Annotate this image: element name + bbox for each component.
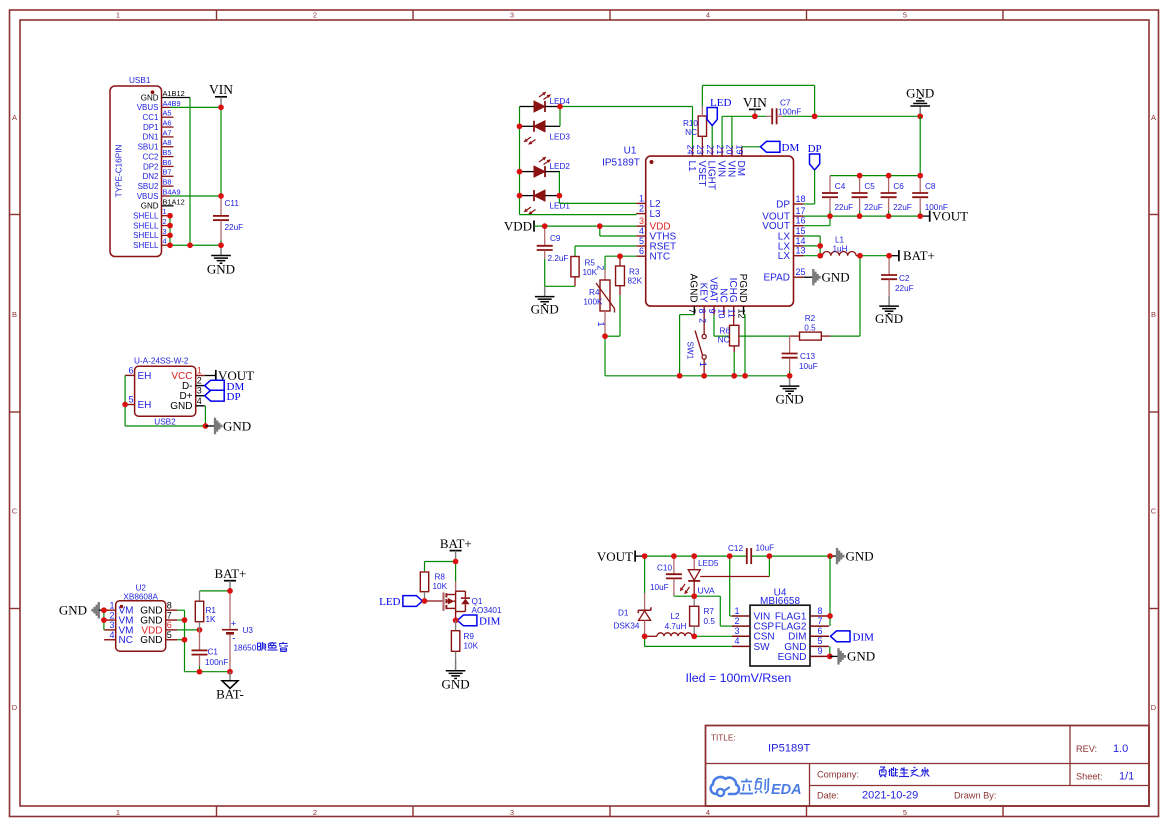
svg-text:11: 11 (727, 309, 737, 318)
wire rail after C12 (751, 555, 830, 557)
svg-text:R1: R1 (206, 606, 217, 615)
svg-text:A: A (1151, 113, 1156, 122)
capacitor C10 (666, 556, 682, 596)
title block frame (706, 726, 1150, 807)
resistor R9 (451, 620, 459, 660)
svg-text:VIN: VIN (715, 161, 726, 178)
svg-text:GND: GND (906, 86, 934, 101)
U1 pin 25 EPAD (764, 267, 806, 283)
ground under R9 (442, 661, 470, 692)
wire SHELL tie vertical (169, 216, 171, 246)
U2 pin 4 NC (104, 630, 133, 646)
USB2 pin 4 GND (170, 396, 204, 412)
svg-text:GND: GND (847, 649, 875, 664)
svg-text:10: 10 (717, 309, 727, 319)
rev label (1076, 744, 1097, 754)
U1 pin1 mark (650, 160, 654, 164)
svg-text:VOUT: VOUT (932, 208, 968, 223)
wire FLAG tie (829, 556, 831, 626)
C2 labels (895, 274, 914, 293)
svg-text:VOUT: VOUT (597, 549, 633, 564)
svg-text:EH: EH (138, 400, 152, 411)
svg-text:GND: GND (140, 635, 162, 646)
svg-text:4: 4 (109, 630, 114, 640)
svg-text:B6: B6 (163, 158, 172, 167)
USB1 pin 1 SHELL (133, 207, 168, 220)
U1 pin 9 VBAT (707, 277, 719, 314)
capacitor C4 (822, 176, 853, 217)
svg-text:C4: C4 (835, 182, 846, 191)
svg-text:DP: DP (227, 391, 241, 403)
svg-text:R7: R7 (704, 607, 715, 616)
svg-text:1: 1 (596, 322, 606, 327)
USB2 pin 2 D- (182, 376, 205, 392)
svg-text:D1: D1 (618, 609, 629, 618)
resistor R7 (690, 596, 699, 636)
svg-text:22uF: 22uF (893, 203, 912, 212)
chip U2 body (116, 601, 166, 652)
wire VIN net vertical (220, 107, 222, 196)
title value IP5189T (768, 743, 810, 755)
junction dots USB1 (167, 105, 224, 249)
svg-text:LED2: LED2 (550, 162, 571, 171)
resistor R2 (790, 332, 831, 340)
U2 VDD junction (197, 627, 203, 633)
U1 pin 22 LIGHT (705, 144, 717, 189)
net flag VIN (209, 82, 233, 107)
svg-text:B: B (1151, 310, 1156, 319)
svg-text:VBAT: VBAT (707, 277, 718, 302)
svg-text:LX: LX (778, 251, 791, 262)
svg-text:2021-10-29: 2021-10-29 (862, 790, 918, 802)
U1 pin 20 VIN (725, 144, 737, 177)
wire VOUT row (804, 215, 921, 217)
capacitor C13 (782, 336, 798, 376)
svg-text:DP: DP (776, 199, 790, 210)
U2 pin 3 VM (104, 620, 133, 636)
wire cap bank top rail (830, 175, 920, 177)
ground flag top right U4 (830, 548, 874, 564)
net flag VDD (504, 218, 545, 233)
Q1 labels (472, 597, 502, 615)
U4 pin 3 CSN (732, 626, 775, 643)
EGND junction (827, 654, 833, 660)
connector USB2 body (135, 366, 196, 416)
U4 pin 5 GND (784, 636, 829, 653)
U2 VM junctions (101, 607, 107, 623)
netport LED at Q1 (379, 596, 442, 608)
connector USB1 body (110, 86, 162, 257)
svg-text:9: 9 (707, 309, 717, 314)
U1 pin 11 ICHG (727, 278, 739, 318)
svg-text:2: 2 (734, 616, 739, 626)
wire VIN pins to C7 (722, 116, 766, 147)
svg-text:CC1: CC1 (142, 113, 159, 122)
svg-text:SHELL: SHELL (133, 212, 159, 221)
USB2 pin 3 D+ (179, 386, 204, 402)
svg-text:R4: R4 (589, 288, 600, 297)
svg-text:10K: 10K (583, 268, 598, 277)
USB2 pin5 junction (122, 402, 128, 408)
wire C7 to GND corner (815, 115, 921, 117)
svg-text:17: 17 (796, 206, 806, 216)
EDA logo EDA text (771, 782, 802, 798)
svg-text:13: 13 (796, 246, 806, 256)
wire VOUT top rail (645, 555, 747, 557)
netport DM at USB2 (205, 380, 245, 393)
svg-text:GND: GND (846, 548, 874, 563)
svg-text:7: 7 (687, 309, 697, 314)
ground under C13 (776, 376, 804, 407)
Q1 junctions (422, 559, 459, 624)
USB1 pin B5 CC2 (142, 148, 173, 161)
wire RSET to R5 (575, 246, 636, 257)
U1 refdes (624, 146, 637, 157)
net flag VIN top (743, 95, 767, 116)
svg-text:6: 6 (128, 365, 133, 375)
U4 VIN junction (727, 553, 733, 559)
svg-text:C5: C5 (864, 182, 875, 191)
USB1 pin B4A9 VBUS (137, 187, 181, 200)
company label (817, 770, 859, 780)
ground flag U2 left (59, 602, 104, 618)
svg-text:VIN: VIN (209, 82, 233, 97)
U2 right junctions (182, 617, 188, 642)
svg-text:1: 1 (639, 193, 644, 203)
U1 pin 8 KEY (697, 283, 709, 315)
svg-text:VIN: VIN (743, 95, 767, 110)
svg-text:23: 23 (695, 144, 705, 154)
svg-text:15: 15 (796, 226, 806, 236)
svg-text:22: 22 (705, 144, 715, 154)
USB1 pin A6 DP1 (143, 118, 174, 131)
netport DP at USB2 (205, 390, 241, 403)
junctions VDD region (542, 223, 623, 339)
svg-text:L1: L1 (835, 236, 845, 245)
wire SW loop (645, 636, 732, 646)
row labels (12, 113, 1157, 712)
U4 refdes (774, 588, 787, 599)
svg-text:SBU2: SBU2 (138, 182, 159, 191)
svg-text:1: 1 (734, 606, 739, 616)
capacitor C7 (766, 108, 815, 124)
R1 labels (206, 606, 217, 624)
USB2 value label (134, 357, 189, 366)
title label (711, 734, 736, 743)
svg-text:A: A (12, 113, 17, 122)
USB2 pin 6 EH (125, 365, 151, 382)
switch SW1 (686, 315, 708, 376)
USB1 pin A1B12 GND (141, 89, 190, 102)
svg-text:C11: C11 (225, 199, 240, 208)
svg-text:1K: 1K (206, 615, 217, 624)
capacitor C9 (537, 226, 553, 286)
svg-text:GND: GND (141, 202, 159, 211)
USB1 pin 4 SHELL (133, 237, 168, 250)
net flag BAT+ U3 (214, 566, 246, 591)
USB1 pin A7 DN1 (142, 128, 173, 141)
svg-text:DP: DP (808, 143, 822, 155)
svg-text:LED: LED (379, 596, 400, 608)
U4 pin 2 CSP (732, 616, 774, 633)
svg-text:B: B (12, 310, 17, 319)
U1 pin 6 NTC (636, 246, 670, 262)
sheet value (1119, 771, 1134, 783)
svg-text:NC: NC (685, 128, 697, 137)
USB2 refdes label (154, 418, 176, 427)
net flag BAT+ right (889, 248, 935, 263)
wire BAT+ to R1 (200, 590, 231, 592)
U1 pin 21 VIN (715, 144, 727, 177)
svg-text:IP5189T: IP5189T (768, 743, 810, 755)
svg-text:R9: R9 (464, 632, 475, 641)
svg-text:1/1: 1/1 (1119, 771, 1134, 783)
connector USB1 value TYPE-C16PIN (115, 145, 124, 198)
wire VTHS branch (600, 226, 637, 236)
U1 pin 23 VSET (695, 144, 707, 186)
svg-text:GND: GND (875, 311, 903, 326)
svg-text:B5: B5 (163, 148, 172, 157)
R8 labels (433, 573, 448, 592)
svg-text:AO3401: AO3401 (472, 606, 502, 615)
svg-text:BAT+: BAT+ (440, 536, 472, 551)
U4 pin 1 VIN (732, 606, 770, 623)
U1 pin 19 DM (735, 144, 747, 176)
resistor R1 (195, 591, 203, 630)
svg-text:C13: C13 (800, 352, 815, 361)
svg-text:16: 16 (796, 216, 806, 226)
svg-text:3: 3 (510, 808, 514, 817)
svg-text:GND: GND (141, 93, 159, 102)
chip U4 body (750, 605, 810, 666)
svg-text:NC: NC (717, 288, 728, 302)
wire USB2 EH left (125, 375, 205, 426)
wire VDD to pin3 (545, 225, 637, 227)
U4 pin 7 FLAG2 (775, 616, 829, 633)
inductor L2 (645, 633, 695, 637)
wire U2 VDD to R1 (177, 629, 199, 631)
U1 pin 13 LX (778, 246, 806, 262)
battery U3 (222, 591, 238, 672)
column labels (116, 11, 907, 817)
R5 labels (583, 259, 598, 278)
svg-text:1: 1 (116, 808, 120, 817)
svg-text:EDA: EDA (771, 782, 802, 798)
svg-text:DIM: DIM (479, 616, 501, 628)
U1 pin 24 L1 (685, 144, 697, 172)
ground flag EGND (830, 648, 875, 664)
svg-text:L3: L3 (650, 209, 662, 220)
wire NTC (605, 256, 636, 270)
svg-text:LED: LED (710, 97, 731, 109)
wire VBUS2 to VIN (170, 195, 221, 197)
resistor R6 (730, 315, 739, 376)
svg-text:DP1: DP1 (143, 123, 159, 132)
wire U2 bottom rail (185, 671, 231, 673)
diode D1 DSK34 (638, 556, 651, 636)
svg-text:SHELL: SHELL (133, 231, 159, 240)
U1 pin 3 VDD (636, 216, 670, 232)
svg-text:USB1: USB1 (129, 76, 151, 85)
capacitor C8 (912, 176, 948, 217)
svg-text:B1A12: B1A12 (163, 197, 185, 206)
U1 pin 4 VTHS (636, 226, 676, 242)
svg-text:2: 2 (313, 808, 317, 817)
svg-text:CC2: CC2 (142, 152, 159, 161)
netport DIM at Q1 (457, 615, 500, 628)
date label (817, 791, 839, 801)
svg-text:VSET: VSET (696, 161, 707, 187)
svg-text:SW1: SW1 (686, 342, 695, 360)
svg-text:Drawn By:: Drawn By: (954, 791, 996, 801)
U4 pin 6 DIM (788, 626, 829, 643)
formula Iled (686, 671, 792, 685)
U3 labels (243, 626, 254, 635)
EDA logo cloud (711, 777, 739, 796)
svg-text:14: 14 (796, 236, 806, 246)
svg-text:2: 2 (596, 265, 606, 270)
wire L2 to CSN (694, 635, 732, 637)
svg-text:1.0: 1.0 (1113, 743, 1128, 755)
U1 pin 18 DP (776, 194, 805, 210)
svg-text:USB2: USB2 (154, 418, 176, 427)
svg-text:SW: SW (754, 642, 771, 653)
svg-text:SHELL: SHELL (133, 241, 159, 250)
C1 labels (205, 648, 228, 667)
svg-text:8: 8 (167, 600, 172, 610)
svg-text:VDD: VDD (504, 218, 532, 233)
svg-text:100nF: 100nF (205, 658, 228, 667)
svg-text:0.5: 0.5 (804, 324, 816, 333)
svg-text:2: 2 (698, 318, 708, 323)
svg-text:SHELL: SHELL (133, 221, 159, 230)
wire C12 right to LED5 (768, 556, 770, 576)
svg-text:R8: R8 (435, 573, 446, 582)
svg-text:8: 8 (697, 309, 707, 314)
svg-text:4: 4 (639, 226, 644, 236)
junctions cap bank (827, 173, 923, 219)
R7 labels (704, 607, 716, 626)
wire BAT+ to R8 (425, 562, 456, 572)
svg-text:C9: C9 (550, 234, 561, 243)
svg-text:A5: A5 (163, 109, 172, 118)
ground under C11 (207, 245, 235, 276)
LED LED4 (520, 92, 571, 112)
EDA logo text (740, 778, 769, 794)
svg-text:R10: R10 (683, 119, 698, 128)
R2 labels (804, 314, 816, 333)
svg-text:A7: A7 (163, 128, 172, 137)
svg-text:5: 5 (817, 636, 822, 646)
USB1 pin A4B9 VBUS (137, 99, 181, 112)
capacitor C12 (728, 544, 774, 565)
svg-text:LED3: LED3 (550, 132, 571, 141)
USB2 GND junction (203, 423, 209, 429)
U2 pin 2 VM (104, 610, 133, 626)
svg-text:AGND: AGND (688, 274, 699, 303)
U3 value 18650 battery-box (234, 642, 289, 653)
svg-text:C1: C1 (208, 648, 219, 657)
svg-text:DM: DM (735, 161, 746, 177)
U4 pin 9 EGND (778, 646, 829, 663)
svg-text:R6: R6 (720, 327, 731, 336)
svg-text:EGND: EGND (778, 652, 807, 663)
U1 pin 17 VOUT (762, 206, 805, 222)
inductor L1 (820, 251, 860, 255)
USB1 pin B1A12 GND (141, 197, 185, 210)
net flag VOUT right (920, 208, 968, 223)
R9 labels (464, 632, 479, 651)
svg-text:R3: R3 (629, 268, 640, 277)
capacitor C5 (852, 176, 883, 217)
ground under C9 (531, 286, 559, 316)
EPAD ground flag (804, 269, 850, 285)
svg-text:4: 4 (706, 11, 710, 20)
svg-text:A1B12: A1B12 (163, 89, 185, 98)
wire VIN vertical from USB1 GND pin (189, 98, 191, 246)
svg-text:5: 5 (903, 808, 907, 817)
svg-text:19: 19 (735, 144, 745, 154)
wire UVA to CSP (694, 596, 732, 626)
U2 pin 8 GND (140, 600, 177, 616)
U2 pin1 mark (120, 605, 123, 608)
net label UVA (698, 586, 715, 596)
svg-text:1uH: 1uH (832, 245, 847, 254)
svg-text:XB8608A: XB8608A (123, 592, 158, 601)
svg-text:1: 1 (163, 207, 167, 216)
wire AGND (680, 315, 695, 376)
resistor R3 (605, 256, 624, 336)
R10 labels (683, 119, 698, 137)
wire R4 bottom to rail (604, 336, 606, 376)
junctions L1 BAT+ (817, 243, 892, 259)
svg-text:24: 24 (685, 144, 695, 154)
U4 value MBI6658 (760, 596, 800, 607)
svg-text:3: 3 (510, 11, 514, 20)
svg-text:GND: GND (531, 302, 559, 317)
ground top right (906, 86, 934, 117)
svg-text:L1: L1 (686, 161, 697, 173)
svg-text:TITLE:: TITLE: (711, 734, 736, 743)
svg-text:U1: U1 (624, 146, 637, 157)
USB1 pin 2 SHELL (133, 217, 168, 230)
junction VIN top (752, 113, 923, 119)
svg-text:1: 1 (197, 366, 202, 376)
svg-text:IP5189T: IP5189T (602, 158, 640, 169)
FLAG1 junction (827, 613, 833, 619)
wire LED4-LED3 link (559, 107, 561, 127)
USB1 pin1 mark (151, 90, 155, 94)
U4 pin 8 FLAG1 (775, 606, 829, 623)
svg-text:D: D (1151, 703, 1157, 712)
svg-text:BAT+: BAT+ (214, 566, 246, 581)
capacitor C11 (213, 196, 229, 245)
wire LED4 row to pin24 (560, 107, 693, 148)
svg-text:3: 3 (109, 620, 114, 630)
capacitor C2 (881, 256, 897, 296)
svg-text:100nF: 100nF (778, 108, 801, 117)
wire pin16 to VOUT (804, 216, 830, 226)
svg-text:4.7uH: 4.7uH (665, 622, 687, 631)
svg-text:5: 5 (128, 395, 133, 405)
wire L1 to BAT+ (860, 255, 889, 257)
svg-text:3: 3 (734, 626, 739, 636)
U4 pin 4 SW (732, 636, 770, 653)
rev value (1113, 743, 1128, 755)
netport DIM at U4 (831, 631, 875, 644)
U2 pin 1 VM (104, 600, 133, 616)
svg-text:2: 2 (313, 11, 317, 20)
